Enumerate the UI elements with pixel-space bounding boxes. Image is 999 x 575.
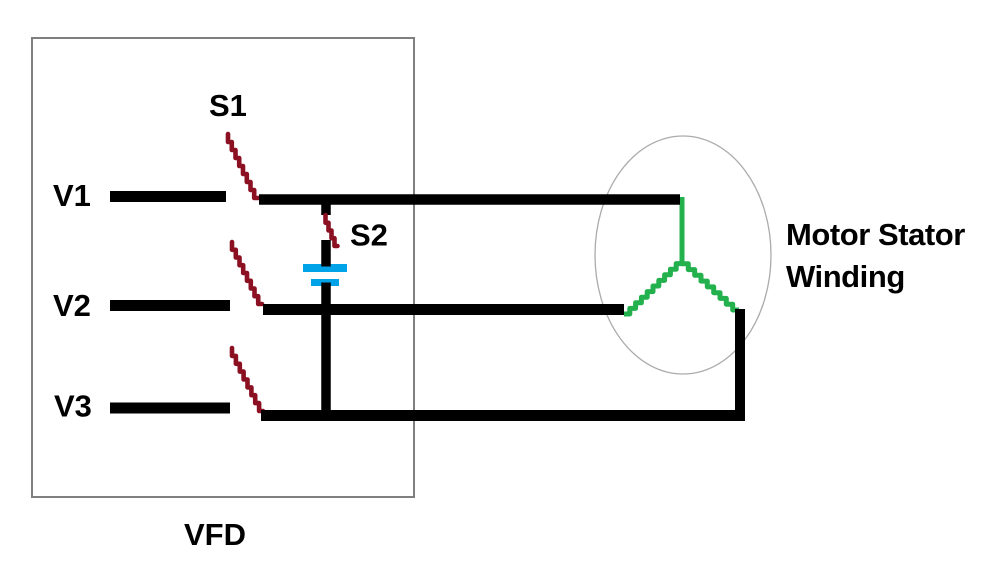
wire V2 left segment [110, 300, 230, 311]
svg-text:V2: V2 [53, 288, 91, 323]
wire right vertical return to phase C [735, 309, 745, 415]
node junction stub below V1 bus [321, 204, 331, 215]
svg-text:S2: S2 [350, 218, 388, 253]
switch blade V3 phase [232, 348, 263, 411]
VFD enclosure box [32, 38, 414, 497]
switch S1 blade [228, 134, 258, 198]
winding phase C (green lower-right leg) [682, 258, 739, 310]
wire S2 to capacitor top plate [321, 240, 331, 267]
wire V1 right segment to stator [259, 194, 680, 205]
wire V1 left segment [110, 191, 226, 202]
svg-text:V1: V1 [53, 178, 91, 213]
motor stator boundary ellipse [595, 136, 771, 374]
svg-text:Winding: Winding [786, 259, 905, 294]
svg-text:VFD: VFD [184, 517, 246, 552]
winding phase A (green vertical) [680, 197, 685, 260]
wire capacitor to V3 bus (vertical) [321, 283, 331, 419]
switch S2 blade [326, 215, 338, 246]
svg-text:V3: V3 [54, 389, 92, 424]
winding phase B (green lower-left leg) [624, 258, 682, 314]
wire V2 right segment to stator [263, 304, 624, 315]
svg-text:S1: S1 [209, 88, 247, 123]
wire V3 right segment [261, 410, 745, 421]
svg-text:Motor Stator: Motor Stator [786, 217, 965, 252]
capacitor bottom plate [311, 279, 339, 286]
capacitor top plate [303, 264, 347, 272]
switch blade V2 phase [232, 242, 262, 304]
wire V3 left segment [110, 403, 230, 414]
